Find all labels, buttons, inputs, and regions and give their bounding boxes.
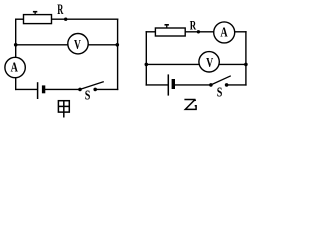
wire: right circuit battery to switch	[175, 84, 211, 86]
wire: right circuit top-left from left rail to rheostat	[146, 31, 155, 33]
resistor R1 (rheostat box, left circuit)	[24, 15, 52, 24]
node: junction dot right of R1	[64, 18, 67, 21]
svg-text:A: A	[220, 24, 227, 40]
svg-text:V: V	[206, 54, 213, 70]
switch S (left circuit)	[78, 82, 104, 92]
wire: left circuit battery to switch	[45, 88, 80, 90]
battery (left circuit): short thick plate	[42, 85, 45, 93]
wire: right circuit bottom-left to battery	[146, 84, 168, 86]
label 乙 (right circuit caption, drawn strokes)	[184, 100, 196, 110]
switch S (right circuit)	[209, 76, 231, 87]
wire: left circuit left rail upper (corner down to ammeter)	[15, 19, 17, 57]
svg-text:S: S	[217, 84, 223, 100]
svg-text:A: A	[11, 59, 18, 75]
voltmeter V (left circuit)	[68, 34, 88, 54]
node: junction dot right of R2	[197, 30, 200, 33]
label 甲 (left circuit caption, drawn strokes)	[58, 101, 69, 118]
wire: right circuit top, ammeter to top-right corner	[235, 31, 246, 33]
svg-text:S: S	[85, 87, 91, 103]
wire: right circuit voltmeter branch left part	[146, 63, 199, 65]
wire: left circuit top, rheostat to top-right corner	[52, 18, 118, 20]
slider arrow of rheostat R2	[165, 24, 169, 28]
voltmeter V (right circuit)	[199, 52, 219, 72]
wire: right circuit switch to bottom-right corner	[227, 84, 246, 86]
ammeter A (right circuit)	[214, 22, 235, 43]
node: junction dot left end of voltmeter branch	[14, 43, 18, 47]
node: junction dot left end of right voltmeter branch	[145, 63, 149, 67]
wire: right circuit left rail	[145, 32, 147, 85]
slider arrow of rheostat R1	[33, 11, 37, 15]
wire: left circuit bottom-left to battery	[16, 88, 38, 90]
svg-text:V: V	[74, 36, 81, 52]
resistor R2 (rheostat box, right circuit)	[155, 28, 185, 36]
battery (right circuit): long plate	[167, 74, 169, 95]
node: junction dot right end of right voltmeter branch	[244, 63, 248, 67]
wire: left circuit switch to bottom-right corner	[95, 88, 117, 90]
wire: right circuit top, rheostat to ammeter	[185, 31, 214, 33]
ammeter A (left circuit)	[5, 57, 25, 77]
battery (right circuit): short thick plate	[172, 79, 175, 89]
wire: right circuit voltmeter branch right part	[219, 63, 246, 65]
wire: left circuit voltmeter branch	[16, 44, 118, 46]
svg-text:R: R	[190, 19, 197, 33]
wire: right circuit right rail	[245, 32, 247, 85]
wire: left circuit left rail lower (ammeter to bottom corner)	[15, 78, 17, 90]
wire: left circuit top-left from left rail to rheostat	[16, 18, 24, 20]
wire: left circuit right rail (top corner to bottom corner)	[117, 19, 119, 89]
node: junction dot right end of voltmeter branch	[116, 43, 120, 47]
battery (left circuit): long plate	[37, 82, 39, 99]
svg-text:R: R	[57, 0, 63, 17]
